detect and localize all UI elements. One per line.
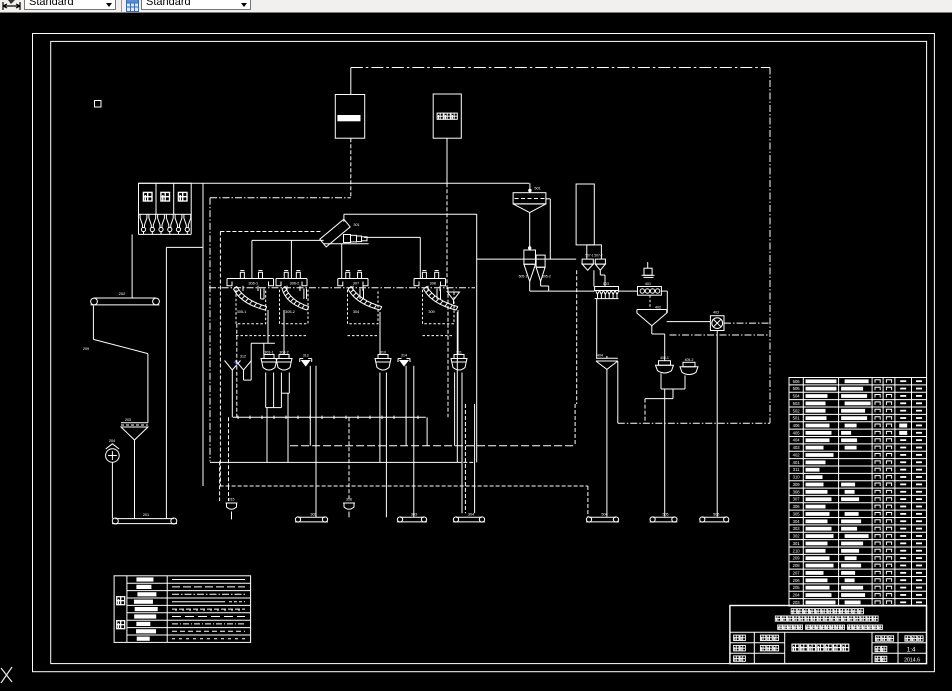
table style icon [126, 0, 139, 12]
belt conveyor 202 [94, 297, 156, 299]
wire [252, 239, 324, 241]
wire [423, 290, 455, 324]
wire [219, 232, 221, 487]
svg-text:403: 403 [713, 311, 719, 315]
funnel at end of dashed drop [448, 292, 460, 300]
title text line2 [775, 616, 780, 621]
wire [220, 485, 588, 487]
cyclone 507-1 [582, 259, 593, 264]
svg-text:506: 506 [713, 512, 719, 516]
svg-text:315: 315 [229, 498, 235, 502]
wire [209, 198, 211, 462]
svg-text:502: 502 [793, 408, 801, 413]
dim style combo [24, 0, 116, 10]
svg-text:404: 404 [597, 354, 603, 358]
wire [549, 290, 595, 292]
svg-text:1:4: 1:4 [907, 646, 916, 653]
wire [236, 290, 266, 324]
svg-text:404: 404 [793, 438, 801, 443]
wire [210, 461, 457, 463]
wire [111, 462, 113, 518]
wire [344, 213, 477, 215]
wire [147, 354, 149, 423]
svg-text:307: 307 [793, 497, 801, 502]
wire tank overflow [546, 198, 550, 200]
equipment list table [789, 378, 927, 607]
wire [202, 183, 204, 486]
right cells [875, 636, 880, 641]
svg-text:305-1: 305-1 [237, 310, 247, 314]
svg-text:202: 202 [119, 291, 126, 296]
sieve bend 309 [424, 289, 457, 310]
svg-text:314: 314 [401, 354, 407, 358]
table style combo [141, 0, 251, 10]
svg-text:310: 310 [380, 350, 386, 354]
belt conveyor 302 [298, 516, 325, 518]
feeder over hopper [121, 422, 148, 424]
svg-text:304: 304 [468, 512, 474, 516]
wire [166, 246, 203, 248]
legend row 6 [134, 614, 156, 618]
wire [716, 331, 718, 517]
legend row 4 [134, 600, 153, 604]
svg-text:301: 301 [793, 541, 801, 546]
separator [121, 0, 122, 12]
svg-text:501: 501 [793, 416, 801, 421]
legend row 5 [135, 607, 158, 611]
wire [670, 334, 771, 336]
wire [724, 322, 770, 324]
wire [324, 243, 369, 245]
funnel 312b [236, 361, 252, 371]
svg-text:208: 208 [793, 563, 801, 568]
svg-text:309: 309 [428, 310, 434, 314]
svg-text:302: 302 [310, 512, 316, 516]
svg-text:403: 403 [793, 445, 801, 450]
legend chars [117, 597, 125, 605]
wire [661, 290, 667, 292]
wire pipe pair S1 [260, 289, 262, 299]
svg-text:308: 308 [430, 281, 436, 285]
wire [290, 240, 292, 278]
wire [351, 67, 770, 69]
wire [343, 214, 345, 222]
wire [476, 214, 478, 462]
svg-text:309: 309 [793, 482, 801, 487]
svg-text:209: 209 [793, 556, 801, 561]
svg-text:505-2: 505-2 [542, 275, 551, 279]
svg-text:301: 301 [353, 223, 359, 227]
wire [426, 417, 428, 445]
cyclone 505-1 [524, 250, 536, 264]
hopper 203 [121, 427, 148, 440]
drawing name [792, 644, 799, 651]
svg-text:308: 308 [793, 489, 801, 494]
belt conveyor 504 [589, 516, 616, 518]
svg-text:401: 401 [793, 460, 801, 465]
svg-text:209: 209 [83, 347, 89, 351]
dim style icon [1, 0, 23, 12]
wire [236, 335, 308, 337]
wire [131, 234, 133, 297]
wire [660, 373, 662, 389]
wire [219, 461, 221, 501]
title block [730, 606, 927, 664]
wire [456, 312, 458, 462]
wire [280, 290, 309, 324]
vibrating screen 306-1 [227, 278, 274, 280]
center line [209, 287, 475, 289]
toolbar [0, 0, 952, 13]
wire [309, 366, 311, 446]
svg-text:313: 313 [303, 354, 309, 358]
wire [651, 326, 653, 334]
legend table [114, 576, 251, 643]
wire [617, 361, 619, 423]
bin feeders [140, 214, 147, 228]
raw coal bunker 101 [139, 183, 192, 214]
svg-text:306-1: 306-1 [248, 281, 258, 285]
wire [619, 290, 638, 292]
svg-text:507-1 507-2: 507-1 507-2 [585, 254, 602, 258]
wire [280, 373, 282, 408]
elevator 502 [576, 184, 594, 245]
wire [618, 422, 770, 424]
svg-text:207: 207 [793, 570, 801, 575]
svg-text:303: 303 [411, 512, 417, 516]
svg-text:305-2: 305-2 [285, 310, 295, 314]
wire [290, 445, 575, 447]
wire bin bottom [139, 233, 192, 235]
belt conveyor 303 [400, 516, 424, 518]
svg-text:503: 503 [603, 282, 609, 286]
wire [266, 408, 268, 463]
svg-text:505-1: 505-1 [519, 275, 528, 279]
svg-text:206: 206 [793, 578, 801, 583]
manifold [587, 245, 602, 259]
svg-text:312: 312 [240, 355, 246, 359]
wire pipe pair S4 [436, 289, 438, 299]
svg-text:306-2: 306-2 [290, 281, 300, 285]
wire [134, 440, 136, 476]
wire [447, 288, 449, 418]
svg-text:303: 303 [793, 526, 801, 531]
wire [477, 258, 576, 260]
wire [457, 310, 459, 355]
svg-text:505: 505 [793, 386, 801, 391]
wire [464, 404, 466, 513]
wire main feed header [139, 182, 530, 184]
svg-text:401: 401 [645, 282, 651, 286]
svg-text:305: 305 [793, 511, 801, 516]
wire [529, 183, 531, 192]
wire [606, 369, 608, 516]
sieve bend 305-1 [234, 289, 266, 310]
wire [413, 366, 415, 517]
belt conveyor 506 [702, 516, 726, 518]
svg-text:203: 203 [793, 600, 801, 605]
title cells text [734, 635, 739, 640]
wire [265, 373, 267, 408]
tank box B water tank [433, 94, 461, 138]
wire [350, 138, 352, 198]
svg-text:506: 506 [793, 379, 801, 384]
svg-text:304: 304 [353, 310, 359, 314]
wire [529, 213, 531, 250]
svg-text:306: 306 [793, 504, 801, 509]
wire [379, 312, 381, 355]
cyclone 505-2 [536, 255, 545, 267]
svg-text:402: 402 [655, 306, 661, 310]
belt conveyor 505 [653, 516, 675, 518]
wire [92, 306, 94, 340]
wire [244, 379, 252, 381]
svg-text:310: 310 [793, 475, 801, 480]
svg-text:2014.6: 2014.6 [904, 657, 920, 663]
title text line3 [778, 625, 782, 629]
svg-text:405-2: 405-2 [685, 358, 694, 362]
wire [134, 440, 136, 444]
wire [364, 236, 420, 238]
wire [587, 486, 589, 517]
legend row 7 [136, 622, 150, 626]
small square marker [95, 101, 102, 108]
svg-text:210: 210 [793, 548, 801, 553]
title text line1 [791, 609, 796, 614]
wire [672, 389, 674, 399]
svg-text:204: 204 [793, 593, 801, 598]
ucs icon [1, 667, 12, 683]
legend row 3 [137, 592, 156, 596]
crusher 302 [344, 235, 351, 243]
svg-text:504: 504 [793, 394, 801, 399]
sieve bend 304 [348, 289, 380, 310]
svg-text:203: 203 [125, 418, 131, 422]
wire [574, 404, 576, 446]
wire [457, 461, 475, 463]
wire [242, 286, 244, 291]
wire [348, 290, 379, 324]
svg-text:302: 302 [793, 534, 801, 539]
belt conveyor 201 [115, 518, 174, 520]
legend row 1 [136, 577, 153, 581]
wire [529, 281, 531, 291]
svg-text:405-1: 405-1 [660, 356, 669, 360]
stand 401a [647, 262, 649, 268]
tank box A [335, 95, 364, 139]
funnel 312a [225, 361, 241, 371]
wire [220, 231, 322, 233]
svg-text:201: 201 [143, 513, 149, 517]
svg-text:303-1: 303-1 [264, 350, 273, 354]
wire [667, 321, 711, 323]
legend row 8 [136, 629, 156, 633]
svg-text:402: 402 [793, 452, 801, 457]
legend row 9 [137, 637, 150, 641]
wire [596, 299, 598, 359]
belt conveyor 304 [456, 516, 482, 518]
wire [649, 295, 651, 309]
wire [210, 197, 351, 199]
pump 204 [106, 444, 119, 449]
svg-text:501: 501 [534, 187, 540, 191]
wire pipe pair S2 [303, 289, 305, 299]
svg-text:205: 205 [793, 585, 801, 590]
chute 301 [320, 219, 350, 247]
wire [419, 237, 421, 278]
wire [315, 366, 317, 517]
wire [233, 416, 426, 418]
wire tall left line [165, 247, 167, 518]
wire [474, 404, 476, 513]
svg-text:503: 503 [793, 401, 801, 406]
wire [251, 342, 275, 344]
wire [446, 138, 448, 183]
svg-text:307: 307 [353, 281, 359, 285]
wire [287, 393, 289, 463]
wire [228, 417, 230, 486]
svg-text:204: 204 [109, 439, 115, 443]
wire pipe pair S3 [359, 289, 361, 299]
vibrating screen 308 [414, 278, 446, 280]
svg-text:311: 311 [793, 467, 800, 472]
wire [267, 310, 269, 343]
vibrating screen 306-2 [276, 278, 307, 280]
wire [664, 389, 666, 517]
wire [769, 68, 771, 424]
svg-text:505: 505 [662, 512, 668, 516]
legend row 2 [136, 585, 151, 589]
wire [379, 373, 381, 463]
svg-text:406: 406 [793, 423, 801, 428]
svg-text:405: 405 [793, 430, 801, 435]
wire [350, 68, 352, 95]
svg-text:304: 304 [793, 519, 801, 524]
cyclone 507-2 [595, 259, 605, 264]
wire [283, 310, 285, 355]
wire [454, 373, 456, 446]
vibrating screen 307 [338, 278, 368, 280]
wire [341, 244, 343, 279]
chute 209 [93, 339, 147, 353]
wire [576, 270, 578, 404]
sieve bend 305-2 [282, 289, 307, 310]
wire [405, 366, 407, 446]
wire [236, 324, 238, 418]
wire [446, 183, 448, 292]
wire [593, 270, 595, 286]
